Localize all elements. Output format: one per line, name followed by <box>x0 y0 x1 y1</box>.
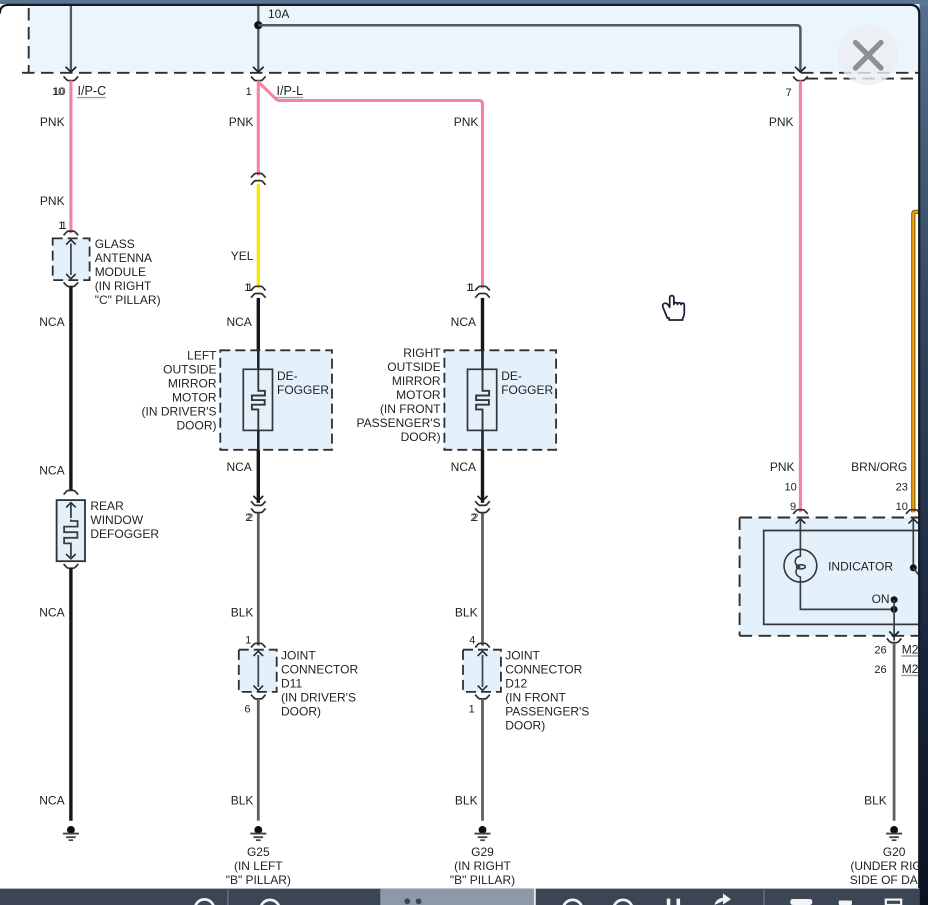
connector I/P-L pin 1 <box>246 76 304 98</box>
connector pin 9 indicator <box>793 510 808 514</box>
wire NCA column C <box>451 298 483 350</box>
svg-text:DOOR): DOOR) <box>505 719 545 733</box>
svg-text:1: 1 <box>469 704 475 716</box>
svg-text:PNK: PNK <box>40 115 65 129</box>
svg-text:PNK: PNK <box>454 115 479 129</box>
svg-text:26: 26 <box>874 645 886 657</box>
svg-text:MODULE: MODULE <box>95 265 146 279</box>
svg-text:10A: 10A <box>268 7 289 21</box>
svg-text:NCA: NCA <box>39 794 64 808</box>
svg-text:2: 2 <box>472 512 478 524</box>
node junction dot 10A <box>254 21 262 29</box>
ground G29 <box>450 826 515 887</box>
svg-text:"B" PILLAR): "B" PILLAR) <box>226 873 291 887</box>
svg-text:NCA: NCA <box>226 315 251 329</box>
svg-text:23: 23 <box>896 482 908 494</box>
fuse 10A label <box>268 7 289 21</box>
svg-text:FOGGER: FOGGER <box>277 383 329 397</box>
joint connector D12 <box>463 649 589 733</box>
svg-text:NCA: NCA <box>226 460 251 474</box>
svg-text:BLK: BLK <box>455 606 478 620</box>
svg-text:OUTSIDE: OUTSIDE <box>387 360 440 374</box>
svg-text:I/P-C: I/P-C <box>78 84 107 98</box>
svg-text:PNK: PNK <box>229 115 254 129</box>
bottom toolbar <box>0 889 920 905</box>
svg-text:GLASS: GLASS <box>95 237 135 251</box>
top window strip <box>0 0 928 6</box>
ground G20 <box>850 826 928 887</box>
connector above rear window defogger <box>64 490 79 494</box>
connector pin 10 indicator <box>906 510 921 514</box>
svg-text:BLK: BLK <box>455 794 478 808</box>
svg-text:"C" PILLAR): "C" PILLAR) <box>95 293 161 307</box>
rear window defogger R1 <box>57 499 160 561</box>
wire lamp to ON node <box>800 582 894 609</box>
junction block box (dashed, blue) <box>22 4 920 73</box>
svg-text:G20: G20 <box>883 845 906 859</box>
svg-text:FOGGER: FOGGER <box>501 383 553 397</box>
wire BLK column B <box>231 513 259 645</box>
indicator inner box <box>764 531 919 625</box>
connector pin 1 (column B, de-fogger) <box>244 282 265 298</box>
wire BRN/ORG column E <box>851 212 919 513</box>
svg-text:10: 10 <box>896 501 908 513</box>
right window strip overlay (clip) <box>920 0 928 905</box>
connector pin 1 (column C, de-fogger) <box>466 282 490 298</box>
de-fogger (right outside mirror motor) <box>357 346 557 450</box>
svg-text:1: 1 <box>246 86 252 98</box>
wire into lamp <box>796 518 806 551</box>
svg-text:NCA: NCA <box>39 464 64 478</box>
cursor (hand pointer) <box>663 296 685 320</box>
connector below glass antenna module <box>64 282 79 286</box>
svg-text:(IN RIGHT: (IN RIGHT <box>454 859 511 873</box>
connector I/P-C pin 10 <box>52 76 106 98</box>
wire NCA column A middle <box>39 287 71 490</box>
svg-text:PNK: PNK <box>770 460 795 474</box>
svg-text:10: 10 <box>785 482 797 494</box>
connector pin 1 glass antenna module <box>58 220 78 235</box>
svg-text:7: 7 <box>786 87 792 99</box>
svg-text:MOTOR: MOTOR <box>172 391 217 405</box>
svg-text:(IN DRIVER'S: (IN DRIVER'S <box>142 405 217 419</box>
wire NCA column C below de-fogger <box>451 450 488 503</box>
connector pin 1 joint connector D11 <box>245 635 266 648</box>
svg-text:NCA: NCA <box>451 460 476 474</box>
svg-text:REAR: REAR <box>90 499 124 513</box>
svg-text:JOINT: JOINT <box>505 649 540 663</box>
svg-text:OUTSIDE: OUTSIDE <box>163 363 216 377</box>
svg-text:RIGHT: RIGHT <box>403 346 441 360</box>
svg-text:NCA: NCA <box>451 315 476 329</box>
close button <box>838 25 898 85</box>
ground (column A) <box>63 826 79 840</box>
ground G25 <box>226 826 291 887</box>
svg-text:MIRROR: MIRROR <box>168 377 217 391</box>
svg-text:2: 2 <box>247 512 253 524</box>
wire BLK column C lower <box>455 699 483 821</box>
svg-text:JOINT: JOINT <box>281 649 316 663</box>
svg-text:PNK: PNK <box>769 115 794 129</box>
wire from fuse to I/P-C pin 10 <box>66 5 77 72</box>
svg-text:INDICATOR: INDICATOR <box>828 560 893 574</box>
svg-text:PASSENGER'S: PASSENGER'S <box>505 705 589 719</box>
svg-text:NCA: NCA <box>39 315 64 329</box>
svg-text:(UNDER RIGHT: (UNDER RIGHT <box>850 859 928 873</box>
dashed box top edge (right connector box) <box>806 78 920 80</box>
svg-text:BLK: BLK <box>231 606 254 620</box>
svg-text:BRN/ORG: BRN/ORG <box>851 460 907 474</box>
indicator dashed box <box>740 518 919 636</box>
lamp INDICATOR <box>784 549 893 582</box>
wire NCA column A lower <box>39 568 71 820</box>
svg-text:1: 1 <box>245 635 251 647</box>
connector pin 7 <box>786 76 808 99</box>
connector below rear window defogger <box>64 564 79 568</box>
wire BLK column C <box>455 513 483 645</box>
wire PNK column A upper <box>40 81 71 234</box>
svg-text:(IN FRONT: (IN FRONT <box>380 402 441 416</box>
connector pin 4 joint connector D12 <box>469 635 490 648</box>
svg-text:ON: ON <box>872 592 890 606</box>
connector pin 26 M21/M22 <box>874 638 925 676</box>
svg-text:(IN DRIVER'S: (IN DRIVER'S <box>281 691 356 705</box>
wire fuse vertical at node <box>253 5 264 72</box>
svg-text:DOOR): DOOR) <box>281 705 321 719</box>
svg-text:4: 4 <box>469 635 475 647</box>
svg-text:CONNECTOR: CONNECTOR <box>505 663 582 677</box>
svg-text:(IN FRONT: (IN FRONT <box>505 691 566 705</box>
inline connector column B (PNK/YEL) <box>251 173 266 184</box>
connector pin 2 column B <box>245 501 265 524</box>
svg-text:LEFT: LEFT <box>187 349 217 363</box>
svg-text:I/P-L: I/P-L <box>277 84 304 98</box>
svg-text:(IN RIGHT: (IN RIGHT <box>95 279 152 293</box>
svg-text:1: 1 <box>247 282 253 294</box>
wire BLK column B lower <box>231 699 259 821</box>
svg-text:G29: G29 <box>471 845 494 859</box>
svg-text:DOOR): DOOR) <box>401 430 441 444</box>
glass antenna module U1 <box>53 237 161 307</box>
svg-text:BLK: BLK <box>231 794 254 808</box>
svg-text:MOTOR: MOTOR <box>396 388 441 402</box>
connector pin 2 column C <box>470 501 489 524</box>
svg-text:DEFOGGER: DEFOGGER <box>90 527 159 541</box>
svg-text:BLK: BLK <box>864 794 887 808</box>
wire BLK to G20 <box>864 643 894 821</box>
wire NCA column B <box>226 298 258 350</box>
joint connector D11 <box>239 649 359 719</box>
svg-text:1: 1 <box>469 282 475 294</box>
svg-text:1: 1 <box>61 220 67 232</box>
svg-text:D11: D11 <box>281 677 302 691</box>
wire horizontal 10A feed to pin 7 <box>258 25 805 72</box>
svg-text:DE-: DE- <box>501 369 522 383</box>
connector pin 6 below D11 <box>244 695 265 716</box>
connector pin 1 below D12 <box>469 695 490 716</box>
svg-text:CONNECTOR: CONNECTOR <box>281 663 358 677</box>
svg-text:WINDOW: WINDOW <box>90 513 143 527</box>
svg-text:NCA: NCA <box>39 606 64 620</box>
switch (orange feed) <box>909 518 921 577</box>
svg-text:SIDE OF DASH): SIDE OF DASH) <box>850 873 928 887</box>
svg-text:"B" PILLAR): "B" PILLAR) <box>450 873 515 887</box>
wire NCA column B below de-fogger <box>226 450 263 503</box>
svg-text:(IN LEFT: (IN LEFT <box>234 859 283 873</box>
svg-text:ANTENNA: ANTENNA <box>95 251 152 265</box>
wire YEL column B <box>231 184 259 288</box>
svg-text:MIRROR: MIRROR <box>392 374 441 388</box>
svg-text:YEL: YEL <box>231 249 254 263</box>
svg-text:PASSENGER'S: PASSENGER'S <box>357 416 441 430</box>
svg-text:6: 6 <box>244 704 250 716</box>
svg-text:D12: D12 <box>505 677 527 691</box>
svg-text:PNK: PNK <box>40 194 65 208</box>
de-fogger (left outside mirror motor) <box>142 349 332 450</box>
svg-text:G25: G25 <box>247 845 270 859</box>
svg-text:10: 10 <box>53 86 65 98</box>
right window strip <box>919 0 928 905</box>
svg-text:DE-: DE- <box>277 369 298 383</box>
svg-text:DOOR): DOOR) <box>177 419 217 433</box>
wire PNK column B <box>229 81 259 176</box>
wire PNK column D <box>769 81 801 513</box>
node ON <box>872 592 899 641</box>
wire PNK branch to column C <box>260 83 483 288</box>
svg-text:26: 26 <box>874 664 886 676</box>
